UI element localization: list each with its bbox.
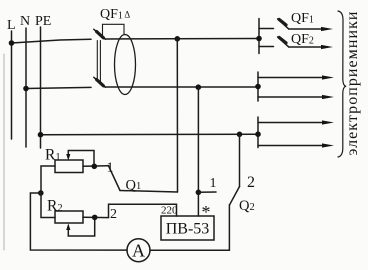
svg-text:1: 1 (210, 176, 217, 191)
label QF1 (291, 11, 314, 26)
wire bottom right (150, 249, 229, 251)
svg-text:QF2: QF2 (291, 32, 314, 47)
bus group2 vertical (257, 72, 259, 101)
wire PE vertical (40, 27, 42, 148)
node L (7, 18, 16, 33)
wire N feed horizontal (left of breaker) (26, 87, 91, 88)
svg-text:N: N (20, 14, 30, 29)
wire L phase top horizontal (right of breaker) (105, 38, 259, 41)
wire PE feed horizontal (41, 133, 259, 136)
wire L phase top horizontal (left of breaker) (12, 39, 92, 43)
junction dot Q1 tap (175, 36, 181, 42)
arrow feeder 6 (258, 143, 334, 147)
bracket from label to toroid (103, 24, 125, 36)
junction dot L top (9, 40, 15, 46)
ammeter A (127, 239, 150, 262)
label Q2 (239, 198, 255, 214)
switch QF2 tick (279, 38, 286, 43)
svg-text:QF1Δ: QF1Δ (100, 7, 130, 22)
wire N feed horizontal (right of breaker) (105, 86, 258, 88)
label A (132, 241, 145, 261)
junction dot QF bus (256, 36, 262, 42)
wire branch to bottom (30, 193, 127, 250)
toroid current transformer (115, 35, 136, 95)
label star terminal (202, 202, 211, 222)
junction dot left branch (38, 190, 44, 196)
label Q2 contact 2 (247, 174, 255, 191)
svg-text:R1: R1 (45, 147, 61, 164)
junction dot group3 (255, 131, 261, 137)
breaker QF1d pole 2 blade (94, 77, 105, 87)
svg-text:1: 1 (107, 161, 114, 176)
device PV-53 box (161, 216, 214, 240)
breaker QF1d pole 2 tick (97, 80, 104, 86)
svg-text:*: * (202, 202, 211, 222)
wiper loop R2 (66, 217, 95, 236)
wire PV riser from N line (197, 87, 199, 216)
arrow feeder 5 (258, 120, 334, 124)
wire R2 left (41, 193, 55, 218)
svg-text:QF1: QF1 (291, 11, 314, 26)
node PE (35, 14, 51, 29)
resistor R2 (55, 211, 83, 223)
arrow feeder QF1 (289, 27, 333, 31)
junction dot PE feed (38, 132, 44, 138)
arrow feeder 4 (258, 95, 334, 99)
label 220 (161, 205, 178, 217)
wire L vertical (11, 31, 13, 139)
label QF1d (100, 7, 130, 22)
breaker QF1d linkage (97, 41, 100, 82)
bus QF group vertical (258, 19, 260, 54)
label Q1 contact 1 (107, 161, 114, 176)
svg-text:Q2: Q2 (239, 198, 255, 214)
label QF2 (291, 32, 314, 47)
svg-text:Q1: Q1 (126, 178, 142, 194)
label R1 (45, 147, 61, 164)
junction dot N feed (23, 86, 29, 92)
switch Q2 blade (230, 187, 240, 205)
svg-text:A: A (132, 241, 145, 261)
junction dot R2 right (92, 215, 98, 221)
wire Q1 common (120, 191, 178, 193)
switch Q2 contact 1 stub (198, 191, 216, 193)
switch QF1 blade (278, 19, 289, 29)
svg-text:ПВ-53: ПВ-53 (166, 221, 210, 238)
switch QF2 stub (259, 46, 274, 48)
wire Q2 down (228, 205, 230, 250)
wire N vertical (25, 28, 27, 147)
junction dot PV tap (196, 84, 202, 90)
wire R2 right (83, 204, 177, 217)
svg-text:2: 2 (110, 207, 117, 222)
switch Q2 riser (239, 134, 241, 186)
switch Q1 blade (109, 166, 121, 191)
page edge artifact (3, 54, 5, 250)
arrow feeder 3 (258, 75, 334, 79)
svg-text:R2: R2 (47, 198, 63, 215)
wire Q1 riser from L line (176, 39, 178, 192)
label Q2 contact 1 (210, 176, 217, 191)
svg-text:220: 220 (161, 205, 178, 217)
svg-text:2: 2 (247, 174, 255, 191)
label PV-53 (166, 221, 210, 238)
svg-text:PE: PE (35, 14, 51, 29)
breaker QF1d pole 1 blade (94, 29, 105, 39)
arrow feeder QF2 (289, 45, 333, 49)
switch QF2 blade (278, 37, 289, 47)
label consumers rotated (344, 8, 362, 158)
label R2 (47, 198, 63, 215)
wire R1 left (41, 166, 55, 193)
junction dot Q2 contact tap (196, 190, 202, 196)
label Q1 (126, 178, 142, 194)
label Q1 contact 2 (110, 207, 117, 222)
breaker QF1d pole 1 tick (97, 32, 104, 38)
bus group3 vertical (257, 117, 259, 148)
wire R1 right (83, 165, 109, 168)
brace consumers (338, 11, 346, 157)
junction dot Q2 tap (237, 132, 243, 138)
switch QF1 tick (279, 20, 286, 25)
wiper loop R1 (66, 151, 94, 167)
resistor R1 (55, 160, 83, 173)
junction dot group2 (255, 84, 261, 90)
junction dot R1 right (92, 164, 98, 170)
switch QF1 stub (259, 28, 274, 30)
node N (20, 14, 30, 29)
